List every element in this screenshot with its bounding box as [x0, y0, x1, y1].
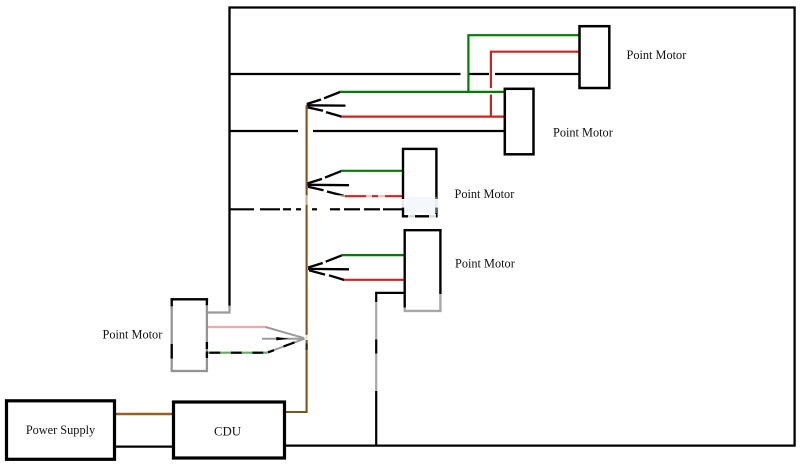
bottom return bus wire (CDU to right border): [286, 444, 796, 446]
red wire to point motor 2: [340, 115, 504, 117]
svg-text:Point Motor: Point Motor: [455, 187, 515, 201]
power supply box: [7, 401, 115, 460]
black return wire from point motor 4 (L-shape): [376, 292, 404, 294]
left bus gray tail to spare motor: [207, 306, 230, 313]
spare motor gray shaft: [262, 338, 305, 340]
red wire to point motor 4: [343, 279, 405, 281]
brown wire power supply to CDU: [115, 413, 173, 415]
point motor 2 box: [505, 89, 534, 155]
svg-text:Point Motor: Point Motor: [627, 48, 687, 62]
svg-text:Point Motor: Point Motor: [455, 257, 515, 271]
spare motor gray diagonal (pink leg): [266, 327, 305, 338]
spare motor black arrow on shaft: [276, 337, 289, 340]
feed arrow A (point motor 2 pair): [307, 92, 346, 117]
feed arrow C (point motor 4): [308, 255, 349, 280]
black wire to point motor 1 (y=74): [229, 73, 461, 75]
green wire to point motor 4: [342, 254, 405, 256]
CDU box: [174, 402, 285, 458]
green wire to point motor 2: [339, 91, 504, 93]
feed arrow B (point motor 3): [307, 171, 349, 196]
point motor 3 box: [403, 149, 436, 216]
spare motor gray diagonal (green leg): [268, 339, 305, 353]
black wire power supply to CDU: [115, 445, 174, 447]
junction highlight on brown bus: [305, 335, 309, 340]
brown feed bus from CDU (up the middle): [286, 105, 307, 412]
left bus wire (vertical): [228, 7, 230, 307]
watermark patches: [298, 193, 444, 220]
red wire to point motor 1: [491, 52, 579, 88]
green wire to point motor 3: [341, 170, 404, 172]
black wire to point motor 2 (y=131): [229, 130, 299, 132]
point motor 1 box: [580, 26, 610, 88]
dashed black wire to point motor 3 (y=209): [229, 208, 404, 210]
spare motor pink wire: [208, 326, 266, 328]
svg-text:Power Supply: Power Supply: [26, 423, 96, 437]
enclosure right border wire: [793, 7, 795, 447]
green wire to point motor 1: [468, 35, 579, 92]
red wire to point motor 3: [345, 195, 404, 197]
svg-text:CDU: CDU: [214, 425, 241, 439]
point motor 4 box: [404, 229, 442, 312]
spare motor green dashed wire: [208, 352, 268, 354]
spare point motor box (gray ghost): [171, 298, 209, 371]
svg-text:Point Motor: Point Motor: [103, 328, 163, 342]
enclosure top border wire: [229, 6, 796, 8]
svg-text:Point Motor: Point Motor: [553, 126, 613, 140]
